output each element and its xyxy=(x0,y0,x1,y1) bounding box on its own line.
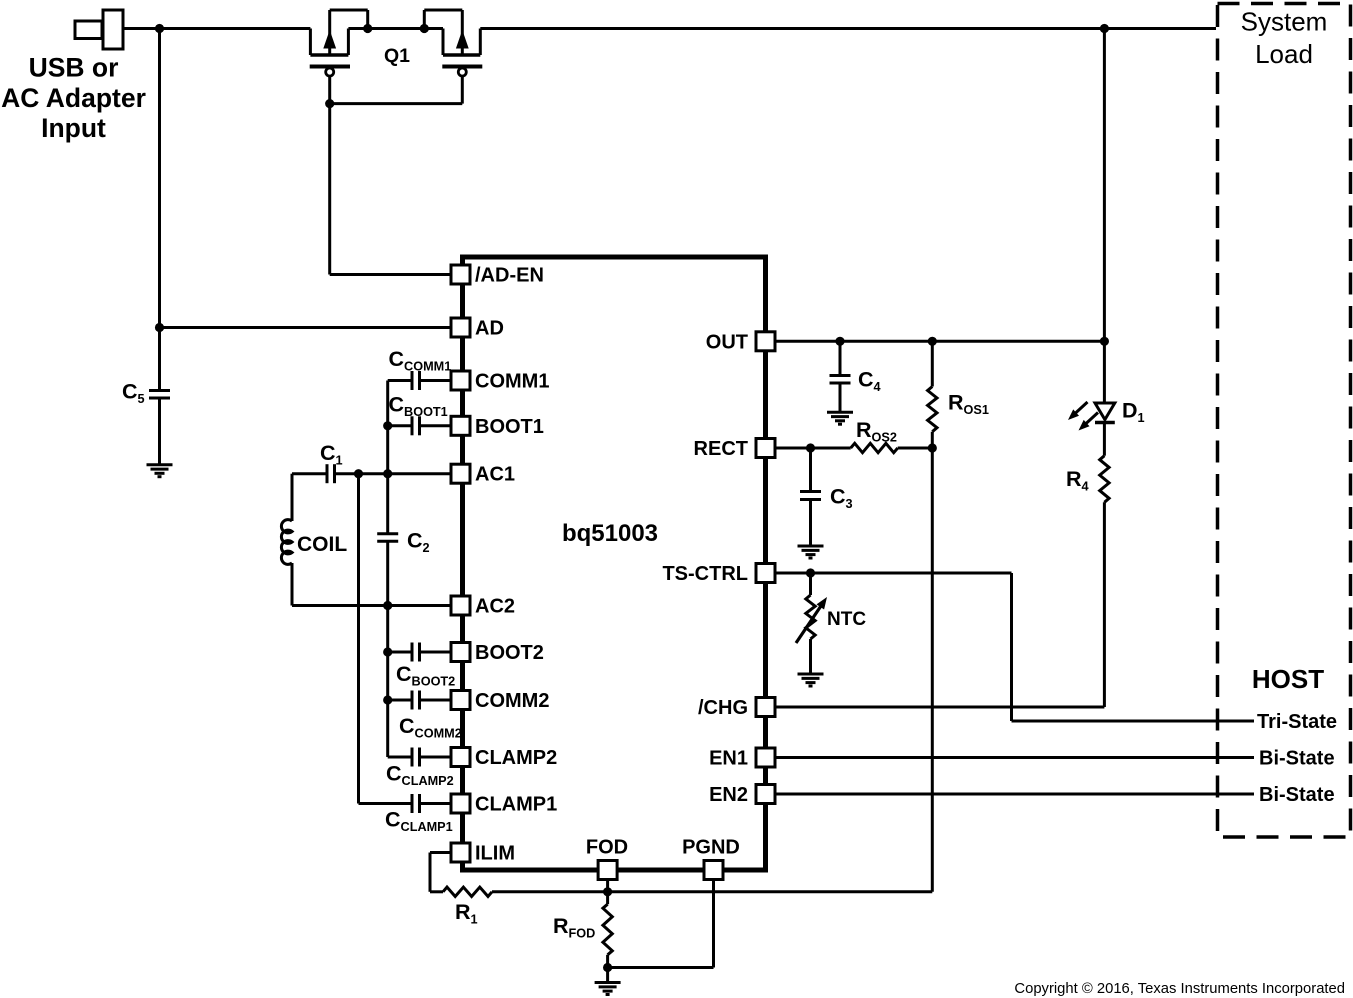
svg-text:/CHG: /CHG xyxy=(698,697,748,719)
pin EN2 xyxy=(756,785,775,804)
pin AC2 xyxy=(451,596,470,615)
node AC2 bus junction xyxy=(383,601,392,610)
svg-text:CBOOT2: CBOOT2 xyxy=(396,662,455,689)
capacitor CCOMM1 xyxy=(388,379,412,382)
svg-text:ILIM: ILIM xyxy=(475,843,515,865)
resistor R1 xyxy=(443,887,492,896)
svg-text:EN2: EN2 xyxy=(709,784,748,806)
wire input down xyxy=(158,29,161,391)
svg-text:AD: AD xyxy=(475,318,504,340)
system load / host dashed box xyxy=(1218,4,1351,838)
diode D1 LED xyxy=(1103,341,1106,403)
wire TS-CTRL xyxy=(775,572,1012,575)
node FOD junction xyxy=(603,887,612,896)
wire RECT bus down xyxy=(931,448,934,892)
svg-text:CBOOT1: CBOOT1 xyxy=(389,393,448,420)
pin CLAMP2 xyxy=(451,748,470,767)
wire /CHG xyxy=(775,706,1104,709)
svg-text:BOOT1: BOOT1 xyxy=(475,416,544,438)
svg-text:ROS1: ROS1 xyxy=(948,391,989,418)
capacitor CBOOT2 xyxy=(388,651,412,654)
svg-text:PGND: PGND xyxy=(682,837,740,859)
resistor R4 xyxy=(1100,456,1109,503)
wire OUT xyxy=(775,340,1104,343)
svg-text:ROS2: ROS2 xyxy=(856,418,897,445)
svg-text:D1: D1 xyxy=(1122,399,1145,426)
node AD junction xyxy=(155,323,164,332)
pin CLAMP1 xyxy=(451,794,470,813)
capacitor CCLAMP2 xyxy=(388,756,412,759)
svg-text:CLAMP1: CLAMP1 xyxy=(475,794,557,816)
svg-text:COMM1: COMM1 xyxy=(475,371,549,393)
node C3 junction xyxy=(806,443,815,452)
svg-text:R1: R1 xyxy=(455,900,478,927)
svg-text:NTC: NTC xyxy=(827,609,866,630)
svg-text:HOST: HOST xyxy=(1252,664,1324,694)
USB connector xyxy=(75,21,102,39)
wire PGND xyxy=(712,870,715,968)
ground NTC xyxy=(798,673,824,676)
svg-text:USB or: USB or xyxy=(29,53,119,83)
svg-text:/AD-EN: /AD-EN xyxy=(475,265,544,287)
pin PGND xyxy=(704,861,723,880)
pin BOOT2 xyxy=(451,643,470,662)
svg-text:Copyright © 2016, Texas Instru: Copyright © 2016, Texas Instruments Inco… xyxy=(1014,981,1345,997)
wire TS-CTRL to host xyxy=(1010,573,1013,721)
pin COMM1 xyxy=(451,371,470,390)
wire Q1 gates xyxy=(330,102,463,105)
node COMM2 junction xyxy=(383,695,392,704)
pin AC1 xyxy=(451,464,470,483)
wire clamp1 bus xyxy=(357,474,360,804)
capacitor CCLAMP1 xyxy=(359,802,413,805)
svg-text:FOD: FOD xyxy=(586,837,628,859)
pin FOD xyxy=(598,861,617,880)
svg-text:AC1: AC1 xyxy=(475,464,515,486)
pin RECT xyxy=(756,439,775,458)
node C4 junction xyxy=(835,337,844,346)
capacitor C4 xyxy=(839,341,842,375)
node Q1 gate junction xyxy=(325,99,334,108)
pin OUT xyxy=(756,332,775,351)
pin BOOT1 xyxy=(451,416,470,435)
resistor ROS1 xyxy=(931,341,934,386)
capacitor CBOOT1 xyxy=(388,424,412,427)
svg-text:TS-CTRL: TS-CTRL xyxy=(662,563,748,585)
svg-text:CCOMM1: CCOMM1 xyxy=(389,347,452,374)
svg-text:Bi-State: Bi-State xyxy=(1259,748,1335,770)
node system load branch xyxy=(1100,24,1109,33)
thermistor NTC xyxy=(809,573,812,595)
transistor Q1 left PMOS xyxy=(309,29,312,56)
node NTC junction xyxy=(806,568,815,577)
node AC1 bus junction xyxy=(383,469,392,478)
svg-text:C4: C4 xyxy=(858,368,881,395)
wire RECT xyxy=(775,447,851,450)
svg-text:Input: Input xyxy=(41,113,106,143)
ground RFOD xyxy=(595,981,621,984)
wire comm1 bus xyxy=(386,381,389,534)
wire FOD drop xyxy=(606,870,609,904)
svg-text:Tri-State: Tri-State xyxy=(1257,711,1337,733)
capacitor C2 xyxy=(377,532,398,535)
wire input rail xyxy=(123,27,310,30)
node BOOT2 junction xyxy=(383,647,392,656)
svg-text:C1: C1 xyxy=(320,441,343,468)
transistor Q1 right PMOS xyxy=(442,29,445,56)
svg-text:C5: C5 xyxy=(122,380,145,407)
svg-text:R4: R4 xyxy=(1066,467,1089,494)
ground C3 xyxy=(798,545,824,548)
wire ILIM xyxy=(430,851,455,854)
node ROS2 junction xyxy=(928,443,937,452)
node BOOT1 junction xyxy=(383,421,392,430)
wire RFOD to ground xyxy=(606,955,609,983)
wire Q1 to system load xyxy=(480,27,1216,30)
svg-text:C3: C3 xyxy=(830,485,853,512)
pin AD xyxy=(451,318,470,337)
capacitor C5 xyxy=(149,389,170,392)
svg-text:C2: C2 xyxy=(407,529,430,556)
pin TS-CTRL xyxy=(756,564,775,583)
svg-text:bq51003: bq51003 xyxy=(562,520,658,547)
wire system load drop xyxy=(1103,29,1106,342)
ground C5 xyxy=(147,463,173,466)
node D1 junction xyxy=(1100,337,1109,346)
svg-text:System: System xyxy=(1241,7,1328,37)
D1 emission arrows xyxy=(1075,402,1088,414)
node RFOD ground junction xyxy=(603,963,612,972)
node Q1 body left xyxy=(363,24,372,33)
wire EN2 xyxy=(775,793,1254,796)
svg-text:BOOT2: BOOT2 xyxy=(475,642,544,664)
NTC arrow xyxy=(796,605,821,643)
resistor RFOD xyxy=(603,904,612,955)
wire between Q1 FETs xyxy=(348,27,443,30)
svg-text:Bi-State: Bi-State xyxy=(1259,784,1335,806)
wire AD xyxy=(160,326,456,329)
ground C4 xyxy=(827,411,853,414)
svg-text:AC2: AC2 xyxy=(475,596,515,618)
svg-text:COIL: COIL xyxy=(297,533,347,556)
svg-text:CCOMM2: CCOMM2 xyxy=(399,714,462,741)
svg-text:COMM2: COMM2 xyxy=(475,690,549,712)
capacitor C1 xyxy=(326,464,329,483)
wire AC2 xyxy=(292,604,455,607)
pin /AD-EN xyxy=(451,265,470,284)
node ROS1 junction xyxy=(928,337,937,346)
wire gate to /AD-EN xyxy=(328,104,331,275)
node Q1 body right xyxy=(420,24,429,33)
svg-text:AC Adapter: AC Adapter xyxy=(1,83,146,113)
svg-text:RECT: RECT xyxy=(694,438,748,460)
capacitor C3 xyxy=(809,448,812,492)
svg-text:Q1: Q1 xyxy=(384,45,410,67)
IC bq51003 body xyxy=(463,257,766,870)
node C1 junction xyxy=(354,469,363,478)
resistor ROS2 xyxy=(851,443,898,452)
pin ILIM xyxy=(451,843,470,862)
capacitor CCOMM2 xyxy=(388,699,412,702)
svg-text:OUT: OUT xyxy=(706,331,748,353)
pin EN1 xyxy=(756,748,775,767)
svg-text:Load: Load xyxy=(1255,39,1313,69)
wire AC1 xyxy=(335,472,456,475)
pin COMM2 xyxy=(451,691,470,710)
pin /CHG xyxy=(756,698,775,717)
wire R1 to RECT bus xyxy=(492,890,932,893)
wire EN1 xyxy=(775,756,1254,759)
svg-text:RFOD: RFOD xyxy=(553,914,595,941)
node input junction xyxy=(155,24,164,33)
inductor COIL xyxy=(291,474,294,521)
svg-text:CLAMP2: CLAMP2 xyxy=(475,747,557,769)
svg-text:EN1: EN1 xyxy=(709,748,748,770)
